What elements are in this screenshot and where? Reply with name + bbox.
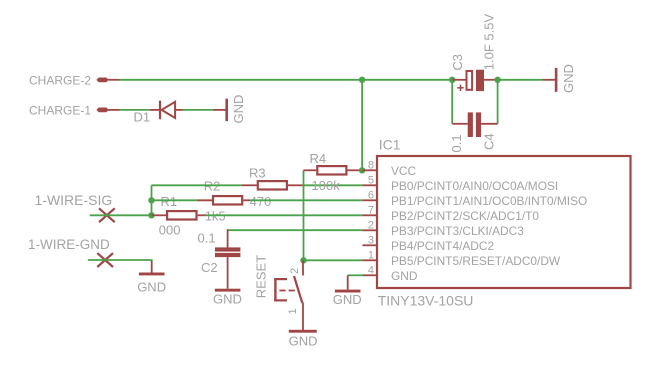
IC IC1 box	[377, 156, 631, 288]
svg-text:1: 1	[368, 249, 374, 261]
wire CHARGE-2 rail	[120, 79, 453, 81]
svg-text:1-WIRE-GND: 1-WIRE-GND	[28, 237, 110, 252]
svg-text:PB1/PCINT1/AIN1/OC0B/INT0/MISO: PB1/PCINT1/AIN1/OC0B/INT0/MISO	[391, 194, 587, 208]
switch S1 actuator	[274, 278, 296, 302]
svg-text:R3: R3	[249, 165, 266, 180]
node R4 / pin 8 junction	[359, 167, 365, 173]
resistor R4	[304, 166, 363, 174]
diode D1	[150, 101, 183, 120]
capacitor C2	[215, 229, 240, 288]
pin 2 PB3	[362, 229, 377, 231]
wire CHARGE-1 to D1	[120, 109, 151, 111]
wire 1-WIRE-GND to ground	[88, 260, 152, 262]
svg-text:2: 2	[368, 219, 374, 231]
svg-text:C2: C2	[201, 260, 218, 275]
svg-text:PB0/PCINT0/AIN0/OC0A/MOSI: PB0/PCINT0/AIN0/OC0A/MOSI	[391, 179, 558, 193]
svg-text:TINY13V-10SU: TINY13V-10SU	[378, 292, 474, 308]
svg-text:PB2/PCINT2/SCK/ADC1/T0: PB2/PCINT2/SCK/ADC1/T0	[391, 209, 539, 223]
svg-text:PB4/PCINT4/ADC2: PB4/PCINT4/ADC2	[391, 239, 494, 253]
ground GND (1-WIRE-GND)	[137, 261, 166, 294]
wire branch top to R3	[152, 184, 243, 186]
ground GND (top right)	[543, 64, 577, 93]
svg-text:1-WIRE-SIG: 1-WIRE-SIG	[35, 192, 113, 208]
svg-text:GND: GND	[333, 292, 362, 307]
wire R1 to pin 7	[206, 214, 363, 216]
svg-text:GND: GND	[231, 95, 246, 124]
cross 1-WIRE-SIG	[99, 208, 115, 222]
resistor R3	[242, 181, 304, 189]
svg-text:1.0F 5.5V: 1.0F 5.5V	[481, 14, 496, 71]
svg-text:GND: GND	[213, 292, 242, 307]
svg-text:000: 000	[159, 222, 181, 237]
node R2 junction	[148, 197, 154, 203]
wire 1-WIRE-SIG to junction	[90, 214, 152, 216]
wire R4 branch vertical x=303.5	[303, 170, 305, 260]
wire vertical rail to pin 8	[361, 80, 363, 171]
svg-text:C3: C3	[450, 54, 465, 71]
node rail-C3 junction left	[449, 77, 455, 83]
node PB5 junction	[300, 257, 306, 263]
ground GND (right of D1)	[213, 95, 246, 124]
wire R2 to pin 6	[250, 199, 362, 201]
switch S1 blade	[294, 276, 302, 303]
pin 6 PB1	[362, 199, 377, 201]
cross 1-WIRE-GND	[97, 253, 113, 267]
pin 4 GND	[363, 274, 377, 276]
svg-text:GND: GND	[391, 269, 418, 283]
svg-text:CHARGE-1: CHARGE-1	[29, 103, 91, 117]
wire C2 to pin 2	[228, 229, 363, 231]
svg-text:3: 3	[368, 234, 374, 246]
svg-text:6: 6	[368, 189, 374, 201]
svg-text:8: 8	[368, 159, 374, 171]
capacitor C3	[452, 70, 497, 91]
svg-text:GND: GND	[561, 64, 576, 93]
ground GND (C2)	[213, 289, 242, 307]
pin 1 PB5	[362, 259, 377, 261]
pin 8 VCC	[362, 169, 377, 171]
svg-text:GND: GND	[289, 334, 318, 349]
svg-text:PB3/PCINT3/CLKI/ADC3: PB3/PCINT3/CLKI/ADC3	[391, 224, 524, 238]
wire pin 4 to ground	[348, 274, 363, 276]
wire junction to pin 1	[304, 259, 363, 261]
pin CHARGE-2	[96, 78, 119, 83]
svg-text:GND: GND	[137, 279, 166, 294]
wire junction to R2	[152, 199, 197, 201]
svg-text:IC1: IC1	[379, 137, 401, 153]
wire C4 loop left	[451, 80, 453, 124]
node R1 junction	[148, 212, 154, 218]
svg-text:D1: D1	[134, 110, 151, 125]
ground GND (pin 4)	[333, 275, 362, 307]
svg-text:0.1: 0.1	[198, 230, 216, 245]
svg-text:C4: C4	[482, 133, 497, 150]
switch S1 pin 1 stub	[302, 303, 304, 331]
resistor R2	[197, 196, 250, 204]
svg-text:2: 2	[289, 268, 301, 274]
pin 3 PB4	[362, 244, 377, 246]
resistor R1	[152, 211, 206, 219]
svg-text:R1: R1	[161, 194, 178, 209]
svg-text:100k: 100k	[312, 178, 341, 193]
wire R3 to pin 5	[304, 184, 363, 186]
svg-text:1: 1	[287, 308, 299, 314]
pin CHARGE-1	[96, 108, 119, 113]
wire D1 to GND	[183, 109, 214, 111]
svg-text:VCC: VCC	[391, 164, 417, 178]
svg-text:CHARGE-2: CHARGE-2	[29, 73, 91, 87]
svg-text:7: 7	[368, 204, 374, 216]
pin 7 PB2	[362, 214, 377, 216]
node VCC rail / vertical drop junction	[359, 77, 365, 83]
svg-text:RESET: RESET	[253, 255, 268, 298]
svg-text:470: 470	[250, 194, 272, 209]
wire vertical branch x=151.5	[151, 185, 153, 215]
svg-text:0.1: 0.1	[449, 134, 464, 152]
wire C3 to GND	[498, 79, 543, 81]
ground GND (switch)	[289, 330, 318, 349]
svg-text:4: 4	[368, 264, 374, 276]
svg-text:PB5/PCINT5/RESET/ADC0/DW: PB5/PCINT5/RESET/ADC0/DW	[391, 254, 561, 268]
switch S1 pin 2 stub	[302, 260, 304, 275]
svg-text:R4: R4	[310, 151, 327, 166]
pin 5 PB0	[362, 184, 377, 186]
capacitor C4	[452, 112, 497, 137]
node rail-C3 junction right	[494, 77, 500, 83]
svg-text:5: 5	[368, 174, 374, 186]
wire C4 loop right	[497, 80, 499, 124]
